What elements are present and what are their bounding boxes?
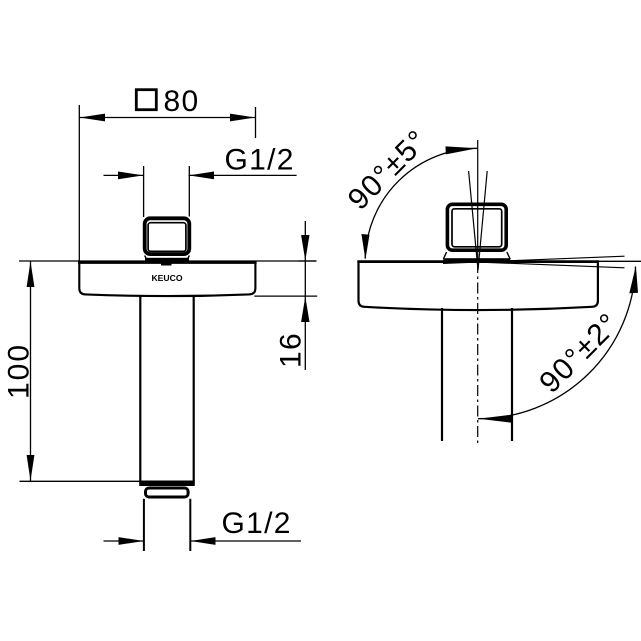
svg-text:80: 80 [164, 85, 200, 118]
svg-text:G1/2: G1/2 [222, 507, 292, 540]
svg-text:G1/2: G1/2 [225, 144, 295, 177]
svg-text:KEUCO: KEUCO [151, 273, 182, 283]
svg-text:16: 16 [275, 332, 308, 368]
svg-text:100: 100 [3, 343, 36, 399]
